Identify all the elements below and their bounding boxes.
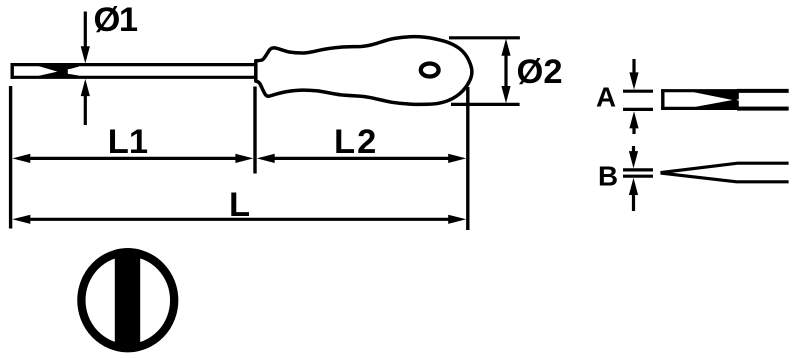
svg-text:L1: L1 [108, 123, 148, 161]
A-view blade tip chevron [688, 91, 739, 108]
dimension B arrow bottom (up) [629, 178, 638, 195]
dimension B leader line bottom [632, 191, 635, 211]
Ø2 extension line top [449, 36, 520, 39]
dimension A arrow top (down) [629, 72, 638, 89]
dimension B tick top [623, 168, 653, 171]
dimension line L1 [26, 157, 240, 160]
dimension Ø1 arrow top (down) [81, 46, 90, 63]
L1 arrow right [235, 154, 253, 163]
extension line right (x=467.8) [466, 87, 469, 230]
dimension B leader line top [632, 146, 635, 156]
svg-text:Ø1: Ø1 [94, 1, 138, 39]
dimension Ø1 leader line bottom [84, 92, 87, 125]
L arrow left [12, 215, 30, 224]
dimension B arrow top (down) [629, 151, 638, 168]
blade tip chevron (main view) [38, 66, 79, 76]
dimension A tick bottom [623, 108, 653, 111]
dimension A leader line bottom [632, 125, 635, 134]
A-view thicker full-thickness lines right of grind [737, 89, 789, 93]
dimension line L2 [270, 157, 452, 160]
handle outline [256, 37, 472, 105]
front view: tip circle [81, 252, 174, 348]
dimension B tick bottom [623, 175, 653, 178]
extension line left (x=10.6) [9, 86, 12, 229]
extension line middle (x=255) [253, 87, 256, 174]
dimension A arrow bottom (up) [629, 111, 638, 128]
dimension Ø1 leader line top [84, 12, 87, 51]
A-view blade (top right): rectangle open at right [661, 89, 788, 110]
dimension Ø1 arrow bottom (up) [81, 79, 90, 96]
L2 arrow left [257, 154, 275, 163]
dimension line L [26, 218, 452, 221]
svg-text:L2: L2 [334, 123, 378, 161]
A-view tip notch (white) [736, 99, 740, 101]
Ø2 extension line bottom [451, 103, 520, 106]
L arrow right [448, 215, 466, 224]
Ø2 arrow down [501, 86, 510, 103]
Ø2 dimension line [504, 49, 507, 93]
B-view blade wedge (bottom right) [662, 163, 789, 182]
dimension A leader line top [632, 59, 635, 76]
dimension A tick top [623, 90, 653, 93]
svg-text:A: A [596, 82, 616, 113]
hanging hole in handle [421, 64, 439, 77]
svg-text:B: B [598, 161, 618, 192]
svg-text:L: L [229, 186, 250, 224]
Ø2 arrow up [501, 39, 510, 56]
L1 arrow left [12, 154, 30, 163]
shaft (blade side view) [11, 63, 255, 79]
svg-text:Ø2: Ø2 [517, 53, 563, 91]
L2 arrow right [448, 154, 466, 163]
